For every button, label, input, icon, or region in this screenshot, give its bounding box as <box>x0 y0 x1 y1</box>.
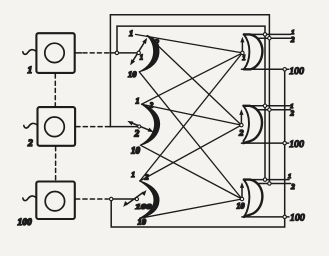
svg-text:1: 1 <box>131 170 135 179</box>
svg-text:10: 10 <box>131 146 141 156</box>
wire N100 to M1 <box>140 53 243 181</box>
svg-text:100: 100 <box>290 214 305 224</box>
output wire 1 of M2 <box>243 105 290 107</box>
wire N1 to M2 <box>147 36 241 126</box>
node at M10 input <box>240 197 243 200</box>
node bus B / output2 of M10 <box>268 182 271 185</box>
svg-text:1: 1 <box>288 173 291 180</box>
output wire 100 of M10 <box>242 216 289 218</box>
input lead squiggle 1 <box>23 50 37 55</box>
svg-text:2: 2 <box>290 109 295 117</box>
input wire to neuron 1 <box>110 52 139 54</box>
wire N1 to M1 <box>136 34 243 53</box>
input lead squiggle 2 <box>24 123 38 128</box>
node bus B / output2 of M1 <box>268 37 271 40</box>
input arrow of M1 <box>240 37 244 53</box>
dashed input wire from unit 100 <box>76 198 109 200</box>
svg-text:100: 100 <box>289 67 304 77</box>
svg-text:2: 2 <box>290 183 295 191</box>
wire N2 to M1 <box>142 53 243 104</box>
input neuron N100 (crescent) <box>140 181 159 218</box>
svg-text:100: 100 <box>289 140 304 150</box>
dashed input wire from unit 1 <box>75 52 82 54</box>
node at neuron1 input / feedback junction <box>115 51 118 54</box>
output neuron M1 (crescent) <box>244 34 263 69</box>
node at M1 input <box>241 51 244 54</box>
output neuron M10 (crescent) <box>244 180 263 217</box>
node at M2 input <box>240 123 243 126</box>
wire N1 to M10 <box>139 72 242 199</box>
output wire 100 of M1 <box>242 68 289 70</box>
node bus C / output100 of M1 <box>283 68 286 71</box>
input unit box 100 <box>36 182 75 220</box>
svg-text:10: 10 <box>237 202 245 211</box>
svg-text:10: 10 <box>128 69 137 79</box>
dashed ellipsis wire between box 1 and box 2 <box>54 74 56 106</box>
dashed input wire from unit 2 <box>76 126 110 128</box>
feedback loop for output 2 (outer top line, bus B) <box>110 15 269 184</box>
node on N2 input (contact pivot) <box>138 125 141 128</box>
input wire to neuron 100 <box>111 198 137 200</box>
input neuron N1 (crescent) <box>139 36 159 72</box>
output wire 1 of M10 <box>244 179 289 181</box>
wire N100 to M2 <box>140 125 242 181</box>
output neuron M2 (crescent) <box>243 106 262 143</box>
svg-text:1: 1 <box>242 55 245 62</box>
node at neuron100 input / feedback junction <box>110 197 113 200</box>
output wire 100 of M2 <box>242 142 289 144</box>
input wire to neuron 2 <box>110 126 140 128</box>
output wire 2 of M2 <box>258 109 291 111</box>
svg-text:2: 2 <box>27 139 33 149</box>
node on N100 input (contact pivot) <box>135 198 138 201</box>
input lead squiggle 100 <box>23 196 37 201</box>
adjustable contact arrow at N1 <box>130 38 147 66</box>
adjustable contact arrow at N100 <box>123 190 146 207</box>
svg-text:2: 2 <box>134 130 140 140</box>
input unit box 2 <box>38 107 76 146</box>
node on N1 input (contact pivot) <box>137 51 140 54</box>
wire N2 to M2 <box>142 104 242 125</box>
output wire 1 of M1 <box>244 33 291 35</box>
svg-text:100: 100 <box>18 218 33 228</box>
node bus A / output1 of M10 <box>263 178 266 181</box>
wire N100 to M10 <box>140 199 242 218</box>
input unit box 1 <box>36 33 74 73</box>
svg-text:1: 1 <box>140 55 143 62</box>
svg-text:1: 1 <box>136 97 140 106</box>
node bus A / output1 of M2 <box>263 104 266 107</box>
dashed ellipsis wire between box 2 and box 100 <box>55 147 57 181</box>
svg-text:1: 1 <box>28 66 33 76</box>
node bus C / output100 of M2 <box>283 141 286 144</box>
svg-text:2: 2 <box>290 36 295 44</box>
output wire 2 of M1 <box>258 37 290 39</box>
svg-text:100: 100 <box>135 203 152 211</box>
input arrow of M10 <box>240 182 244 199</box>
svg-text:1: 1 <box>291 29 294 36</box>
feedback loop for output 1 (inner top line, bus A) <box>117 26 265 180</box>
feedback loop for output 100 (bottom line, bus C) <box>111 69 285 227</box>
node bus B / output2 of M2 <box>268 108 271 111</box>
input neuron N2 (crescent) <box>140 104 159 145</box>
input arrow of M2 <box>239 109 243 125</box>
svg-text:2: 2 <box>238 127 244 137</box>
output wire 2 of M10 <box>258 183 290 185</box>
node bus C / output100 of M10 <box>283 215 286 218</box>
wire N2 to M10 <box>140 145 242 199</box>
adjustable contact arrow at N2 <box>127 121 153 132</box>
node bus A / output1 of M1 <box>263 33 266 36</box>
svg-text:1: 1 <box>129 28 133 38</box>
